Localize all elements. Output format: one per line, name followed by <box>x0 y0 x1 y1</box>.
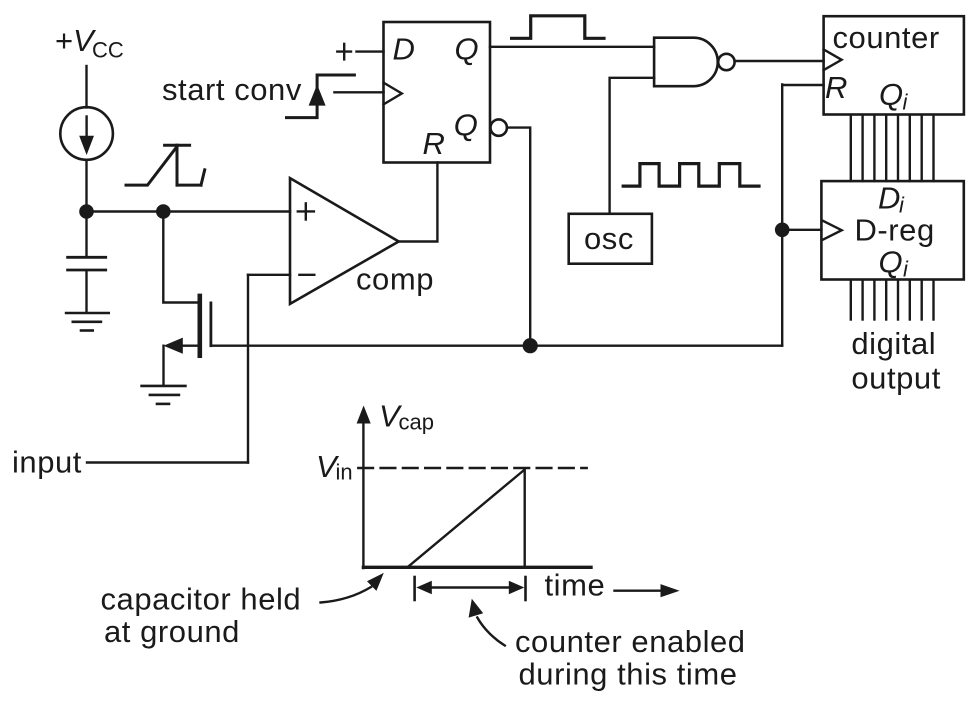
svg-text:osc: osc <box>584 221 634 256</box>
op-amp comparator U1 <box>290 178 399 304</box>
minus input marking <box>299 274 314 276</box>
graph ramp <box>409 470 525 567</box>
D-reg pin Qi <box>879 245 910 282</box>
svg-text:Q: Q <box>879 77 903 112</box>
annotation counter enabled during this time <box>515 624 746 692</box>
svg-text:at ground: at ground <box>104 614 240 649</box>
current source I1 <box>60 107 113 160</box>
D flip-flop U2 <box>384 22 491 163</box>
junction dot control net <box>523 338 538 353</box>
square wave icon <box>623 164 759 187</box>
wire control net vertical to counter R <box>781 85 783 346</box>
oscillator box osc <box>569 214 652 264</box>
svg-text:counter enabled: counter enabled <box>515 624 746 659</box>
D-reg pin Di <box>878 181 905 218</box>
graph y-axis <box>362 420 364 568</box>
svg-text:R: R <box>825 70 847 105</box>
plus input marking <box>298 203 314 219</box>
D-reg clock triangle <box>823 221 842 240</box>
wire main ramp node horizontal <box>87 210 291 212</box>
supply label +VCC <box>55 23 124 63</box>
ground under transistor <box>142 386 186 404</box>
capacitor C <box>68 256 106 259</box>
svg-text:capacitor held: capacitor held <box>101 582 302 617</box>
bus wires D-reg outputs <box>851 280 934 320</box>
plus marking at D input <box>337 44 351 60</box>
wire inverting input <box>248 274 290 276</box>
capacitor C wire top <box>85 212 87 257</box>
wire Q output to NAND input <box>490 46 654 48</box>
svg-text:digital: digital <box>851 326 936 361</box>
wire to counter R input <box>782 84 823 86</box>
counter pin Qi <box>879 77 909 114</box>
svg-text:R: R <box>423 126 445 161</box>
svg-text:D: D <box>878 181 900 216</box>
dashed level line Vin <box>358 467 586 470</box>
wire VCC to current source <box>85 66 87 108</box>
svg-text:counter: counter <box>833 20 940 55</box>
wire input vertical <box>247 275 249 463</box>
wire NAND output to counter clock <box>735 60 824 62</box>
svg-text:Q: Q <box>455 32 479 67</box>
svg-text:CC: CC <box>92 38 124 63</box>
transistor Q1 (MOSFET switch) <box>198 296 203 356</box>
tick marks <box>413 577 416 600</box>
wire op-amp output to flip-flop R <box>399 163 438 242</box>
bus wires counter to D-reg <box>851 116 934 182</box>
D register box <box>821 181 963 279</box>
NAND gate G1 <box>654 38 718 86</box>
pulse waveform icon <box>512 16 604 39</box>
flip-flop clock triangle <box>384 83 402 105</box>
node A junction dot <box>79 204 94 219</box>
svg-text:Q: Q <box>879 245 903 280</box>
wire plus to D input <box>357 50 384 52</box>
svg-text:in: in <box>336 460 353 485</box>
wire current source to node A <box>85 160 87 212</box>
graph time axis baseline <box>363 566 591 569</box>
svg-text:D: D <box>393 32 415 67</box>
time axis arrow <box>615 590 663 592</box>
svg-text:i: i <box>903 257 909 282</box>
svg-text:i: i <box>903 90 909 115</box>
wire transistor source to ground <box>162 346 164 385</box>
counter box <box>824 16 964 114</box>
wire transistor gate to control net <box>212 345 782 347</box>
svg-text:Q: Q <box>454 108 478 143</box>
annotation capacitor held at ground <box>101 582 302 650</box>
interval double arrow <box>428 586 512 588</box>
ground under capacitor <box>66 313 109 331</box>
node B junction dot <box>156 204 171 219</box>
edge trigger symbol <box>287 75 355 118</box>
inversion bubble on flip-flop Q-bar <box>491 119 507 135</box>
svg-text:start conv: start conv <box>162 72 302 107</box>
label digital output <box>851 326 941 395</box>
counter clock triangle <box>824 49 842 70</box>
curved arrow to interval <box>477 618 505 646</box>
svg-text:time: time <box>545 568 606 603</box>
wire node B down to transistor drain <box>163 212 197 303</box>
label Vcap <box>379 399 434 435</box>
wire oscillator to NAND input <box>610 78 655 214</box>
svg-text:+: + <box>55 23 73 58</box>
wire to D-reg clock input <box>782 229 821 231</box>
svg-text:D-reg: D-reg <box>855 213 935 248</box>
svg-text:input: input <box>12 445 82 480</box>
curved arrow to baseline start <box>321 587 372 603</box>
capacitor C wire bottom <box>85 271 87 312</box>
NAND output bubble <box>718 54 734 70</box>
svg-text:comp: comp <box>356 262 434 297</box>
svg-text:during this time: during this time <box>519 657 738 692</box>
svg-text:output: output <box>851 361 941 396</box>
wire Q-bar to control net <box>507 128 530 346</box>
junction dot D-reg clock tap <box>775 223 790 238</box>
label Vin <box>316 449 353 485</box>
svg-text:cap: cap <box>399 410 434 435</box>
wire input horizontal <box>87 461 248 463</box>
wire edge symbol to clock input <box>334 91 383 93</box>
ramp waveform icon <box>126 145 205 185</box>
